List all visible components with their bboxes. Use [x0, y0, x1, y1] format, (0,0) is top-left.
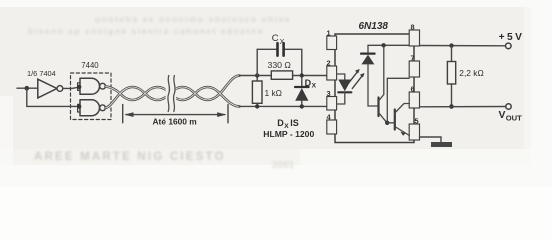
resistor 330 Ω	[271, 71, 292, 79]
svg-text:D: D	[277, 118, 284, 128]
svg-text:V: V	[499, 110, 506, 121]
ground	[431, 142, 452, 147]
LED D1 cathode bar	[338, 91, 351, 93]
wire input stub	[17, 87, 38, 89]
wire pin7 to Q2 base	[387, 78, 409, 123]
capacitor CX branch risers	[257, 49, 302, 75]
node diode bottom dot	[300, 104, 304, 108]
svg-text:+ 5 V: + 5 V	[499, 32, 522, 43]
svg-text:IS: IS	[290, 118, 299, 128]
node top of 1k dot	[255, 73, 259, 77]
twisted pair wire A core highlight	[106, 86, 240, 106]
wire photodiode to Q1 base	[368, 64, 378, 106]
svg-text:5: 5	[415, 117, 419, 126]
svg-text:330 Ω: 330 Ω	[268, 60, 292, 70]
node Q2 base dot	[385, 121, 389, 125]
paper background	[0, 0, 552, 187]
LED emission arrow 1	[348, 70, 359, 85]
wire bottom line pair to pin3	[239, 105, 326, 107]
capacitor CX plates	[276, 43, 279, 55]
pin 8 box	[409, 30, 419, 46]
transistor Q2	[394, 110, 396, 130]
svg-text:1: 1	[327, 29, 331, 38]
svg-text:OUT: OUT	[506, 114, 522, 123]
node A junction dot	[25, 86, 30, 91]
wire pin8 to +5V	[420, 45, 506, 47]
wire inverter output to gate A	[63, 87, 80, 89]
svg-text:AREE MARTE NIG CIESTO: AREE MARTE NIG CIESTO	[34, 151, 226, 163]
svg-text:2,2 kΩ: 2,2 kΩ	[459, 68, 483, 78]
svg-text:8: 8	[411, 23, 415, 32]
photodiode triangle	[361, 55, 374, 65]
LED D1 triangle	[338, 80, 351, 92]
NAND gate U2b	[80, 100, 100, 116]
pin 6 box	[409, 92, 419, 108]
optocoupler U3 6N138 body	[335, 34, 414, 143]
svg-text:2001: 2001	[272, 160, 295, 171]
gate A input stubs	[78, 83, 80, 91]
pin 7 box	[409, 61, 419, 77]
wire top line pair to pin2	[239, 75, 326, 77]
svg-text:HLMP - 1200: HLMP - 1200	[263, 129, 314, 139]
twisted pair wire B core highlight	[106, 76, 240, 108]
pin 2 box	[327, 66, 337, 80]
svg-text:2: 2	[327, 59, 331, 68]
svg-text:C: C	[272, 32, 279, 43]
node 2.2k top dot	[449, 43, 453, 47]
LED emission arrow 2	[352, 74, 363, 89]
svg-text:6: 6	[411, 85, 415, 94]
inverter U1 triangle	[38, 79, 57, 98]
svg-text:1/6 7404: 1/6 7404	[27, 69, 56, 78]
wire pin2 to LED	[337, 74, 345, 80]
svg-text:biseno ap cnsigne sientra caho: biseno ap cnsigne sientra cahonet edsotn…	[28, 26, 264, 36]
svg-text:7440: 7440	[81, 61, 99, 70]
svg-text:X: X	[312, 83, 317, 90]
wire LED to pin3	[337, 92, 345, 104]
faint bleed-through text bottom band	[34, 151, 226, 163]
internal top rail	[368, 45, 409, 53]
gate A input tie dot	[77, 85, 81, 89]
wire pin5 to ground	[420, 137, 442, 142]
Q2 emitter arrowhead	[400, 132, 405, 136]
IC U2 7440 dashed box	[71, 73, 112, 120]
node bottom of 1k dot	[255, 104, 259, 108]
pin 3 box	[327, 97, 337, 111]
inverter U1 output bubble	[57, 86, 63, 92]
pin 4 box	[327, 120, 337, 134]
svg-text:3: 3	[327, 89, 331, 98]
photodiode bar	[361, 52, 375, 54]
gate B input tie dot	[77, 104, 81, 108]
faint bleed-through text top	[28, 14, 291, 36]
NAND gate U2b output bubble	[100, 105, 106, 111]
transistor Q1	[377, 98, 379, 117]
svg-text:6N138: 6N138	[359, 21, 389, 32]
node rail dot	[381, 43, 385, 47]
+5V terminal circle	[506, 43, 512, 49]
diode DX	[301, 76, 303, 88]
NAND gate U2a	[80, 78, 100, 94]
dimension arrow Até 1600 m	[123, 105, 228, 123]
svg-text:unoteba ae onocimo sboleucs ob: unoteba ae onocimo sboleucs obine	[95, 14, 291, 24]
gate B input stubs	[78, 104, 80, 112]
cable break symbol	[166, 77, 177, 110]
svg-text:X: X	[280, 39, 285, 46]
wire branch down from node A	[27, 88, 80, 106]
wire pin6 to VOUT	[420, 106, 506, 108]
svg-text:D: D	[305, 78, 312, 88]
NAND gate U2a output bubble	[100, 83, 106, 89]
VOUT terminal circle	[506, 104, 511, 109]
svg-text:Até 1600 m: Até 1600 m	[153, 116, 197, 126]
node diode top dot	[300, 73, 304, 77]
twisted pair cable wire A	[106, 86, 240, 106]
pin 5 box	[409, 124, 419, 140]
resistor 1 kΩ	[256, 76, 258, 82]
pin 1 box	[327, 36, 337, 50]
svg-text:1 kΩ: 1 kΩ	[265, 88, 282, 98]
resistor 2,2 kΩ	[451, 46, 453, 62]
svg-text:7: 7	[411, 54, 415, 63]
node 2.2k bottom dot	[449, 104, 454, 109]
twisted pair cable wire B	[106, 76, 240, 108]
